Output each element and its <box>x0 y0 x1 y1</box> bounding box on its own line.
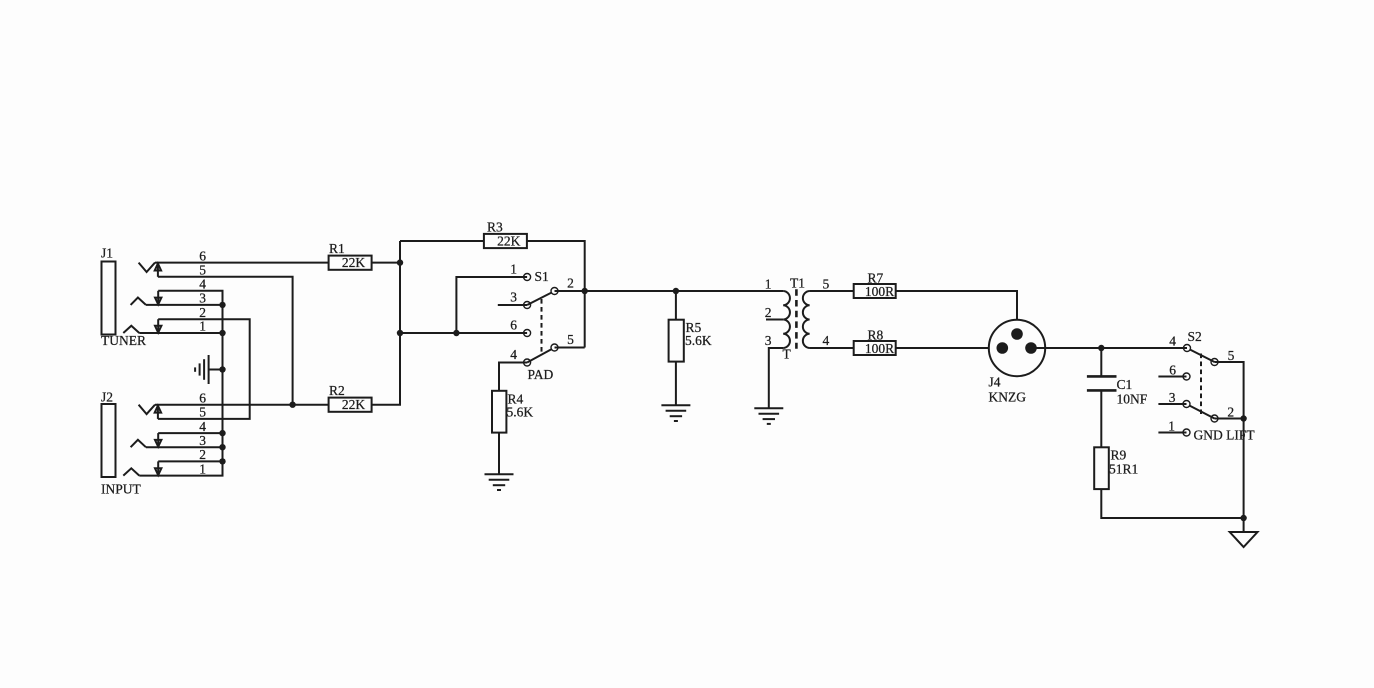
svg-text:3: 3 <box>199 291 206 306</box>
S2 pin numbers <box>1168 334 1234 434</box>
ground under R5 <box>661 405 690 421</box>
wire stub T1.2 <box>766 319 783 321</box>
ground (sideways earth) on bus <box>195 355 222 384</box>
capacitor C1 10NF <box>1087 376 1148 406</box>
ground under R4 <box>485 474 514 490</box>
T1 pin numbers <box>765 277 830 349</box>
resistor R3 22K <box>484 220 527 249</box>
svg-text:22K: 22K <box>342 397 366 412</box>
svg-text:T: T <box>783 347 792 362</box>
S1 pin numbers <box>510 262 574 363</box>
wire J2.4 to bus <box>158 432 222 434</box>
svg-text:4: 4 <box>510 347 517 362</box>
svg-text:4: 4 <box>199 419 206 434</box>
svg-text:3: 3 <box>510 290 517 305</box>
svg-text:22K: 22K <box>342 255 366 270</box>
svg-text:2: 2 <box>1227 405 1234 420</box>
svg-text:2: 2 <box>199 447 206 462</box>
J2 pin numbers 6 5 4 3 2 1 <box>199 390 206 476</box>
svg-text:1: 1 <box>1168 419 1175 434</box>
wire up to S1.1 <box>456 277 527 333</box>
svg-text:100R: 100R <box>865 284 894 299</box>
svg-text:T1: T1 <box>790 276 805 291</box>
wire J2.6 to R2 <box>155 404 329 406</box>
svg-text:5: 5 <box>199 405 206 420</box>
switch S2 (GND LIFT) <box>1183 329 1255 443</box>
svg-text:100R: 100R <box>865 341 894 356</box>
svg-text:2: 2 <box>567 276 574 291</box>
wire rail to R3 <box>400 240 484 242</box>
svg-text:5: 5 <box>1228 348 1235 363</box>
vertical wire R3/R1/R2 junction rail <box>372 241 400 405</box>
svg-text:R3: R3 <box>487 220 503 235</box>
resistor R5 5.6K <box>669 320 712 362</box>
svg-text:1: 1 <box>510 262 517 277</box>
resistor R9 51R1 <box>1094 447 1138 489</box>
wire S1.5 to rail <box>555 347 585 349</box>
svg-text:2: 2 <box>199 305 206 320</box>
ground under T1.3 <box>754 408 783 424</box>
svg-text:51R1: 51R1 <box>1109 462 1138 477</box>
wire R9 to bottom rail <box>1101 489 1243 518</box>
resistor R7 100R <box>854 271 896 299</box>
wire R4 to ground <box>498 433 500 474</box>
jack J2 (INPUT) <box>101 390 161 497</box>
wire T1.4 to R8 <box>810 347 854 349</box>
svg-text:6: 6 <box>199 248 206 263</box>
svg-text:6: 6 <box>510 318 517 333</box>
wire stub S2.3 <box>1158 403 1186 405</box>
wire J1.5 down to J2.6 net <box>158 277 293 405</box>
wire J1.3 to bus <box>146 304 223 306</box>
svg-text:J1: J1 <box>101 246 113 261</box>
switch S1 (PAD) <box>524 269 558 382</box>
wire T1.5 to R7 <box>810 290 854 292</box>
svg-text:TUNER: TUNER <box>101 333 146 348</box>
svg-text:J4: J4 <box>989 375 1001 390</box>
transformer T1 <box>783 276 810 362</box>
svg-text:GND LIFT: GND LIFT <box>1194 428 1256 443</box>
svg-text:3: 3 <box>765 333 772 348</box>
wire C1 to R9 <box>1100 390 1102 447</box>
ground flag bottom right <box>1230 518 1258 547</box>
wire stub S1.3 <box>498 304 527 306</box>
svg-text:5: 5 <box>199 263 206 278</box>
svg-text:3: 3 <box>199 433 206 448</box>
wire stub S2.1 <box>1158 432 1186 434</box>
wire S2.5 down right rail <box>1215 362 1244 518</box>
J1 pin numbers 6 5 4 3 2 1 <box>199 248 206 333</box>
svg-text:2: 2 <box>765 305 772 320</box>
svg-text:S2: S2 <box>1188 329 1202 344</box>
svg-text:R9: R9 <box>1111 448 1127 463</box>
svg-text:R2: R2 <box>329 383 345 398</box>
wire R5 to ground <box>675 362 677 405</box>
wire J1.6 to R1 <box>155 262 329 264</box>
svg-text:R1: R1 <box>329 241 345 256</box>
wire R3 to S1.2 rail <box>527 241 585 348</box>
resistor R4 5.6K <box>492 391 533 433</box>
svg-text:4: 4 <box>199 277 206 292</box>
resistor R1 22K <box>329 241 372 270</box>
wire S1.2 node to T1.1 <box>585 290 784 292</box>
wire J2.3 to bus <box>146 446 223 448</box>
svg-text:C1: C1 <box>1117 377 1133 392</box>
wire down to R5 <box>675 291 677 320</box>
wire stub S2.6 <box>1158 376 1186 378</box>
svg-text:6: 6 <box>199 390 206 405</box>
svg-text:5: 5 <box>823 277 830 292</box>
svg-text:S1: S1 <box>535 269 549 284</box>
svg-text:1: 1 <box>199 319 206 334</box>
wire J1.1 to bus <box>139 332 222 334</box>
wire S1.4 down to R4 <box>499 363 527 391</box>
wire node A to S1.6 <box>400 332 527 334</box>
XLR connector J4 KNZG <box>989 320 1046 405</box>
svg-text:4: 4 <box>1169 334 1176 349</box>
resistor R8 100R <box>854 328 896 356</box>
svg-text:4: 4 <box>823 333 830 348</box>
wire J4 out to S2.4 <box>1031 347 1187 349</box>
svg-text:22K: 22K <box>497 234 521 249</box>
wire R8 to J4 pin3 <box>896 347 1003 349</box>
svg-text:3: 3 <box>1169 390 1176 405</box>
svg-text:5.6K: 5.6K <box>685 333 712 348</box>
svg-text:5: 5 <box>567 332 574 347</box>
wire R7 to J4 pin2 <box>896 291 1017 334</box>
wire T1.3 to ground <box>769 348 783 408</box>
resistor R2 22K <box>329 383 372 412</box>
svg-text:J2: J2 <box>101 390 113 405</box>
svg-text:PAD: PAD <box>528 367 554 382</box>
wire J2.2 to bus <box>158 460 222 462</box>
svg-text:INPUT: INPUT <box>101 482 142 497</box>
wire S2.2 to rail <box>1215 418 1244 420</box>
wire J1.2 down to J2.5 <box>158 319 250 419</box>
svg-text:5.6K: 5.6K <box>507 405 534 420</box>
svg-text:6: 6 <box>1169 363 1176 378</box>
jack J1 (TUNER) <box>101 246 161 349</box>
svg-text:1: 1 <box>199 461 206 476</box>
wire down to C1 <box>1100 348 1102 376</box>
wire S1.2 to node <box>555 290 585 292</box>
svg-text:KNZG: KNZG <box>989 390 1027 405</box>
wire R1 to node A <box>372 262 400 264</box>
svg-text:10NF: 10NF <box>1117 392 1148 407</box>
svg-text:1: 1 <box>765 277 772 292</box>
wire J1.4 + ground bus + J2.1 <box>139 291 222 476</box>
